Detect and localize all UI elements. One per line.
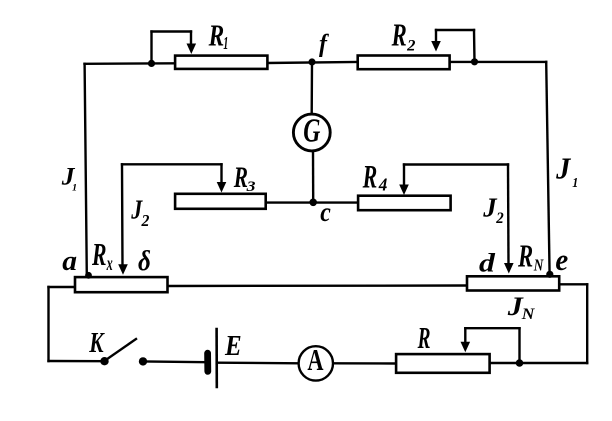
- svg-text:R: R: [91, 237, 106, 272]
- svg-text:1: 1: [223, 35, 228, 55]
- svg-text:G: G: [303, 112, 320, 149]
- svg-text:4: 4: [378, 174, 388, 194]
- svg-text:R: R: [417, 321, 431, 356]
- svg-text:2: 2: [141, 210, 150, 230]
- svg-text:R: R: [391, 17, 407, 53]
- svg-text:3: 3: [245, 179, 255, 195]
- svg-text:δ: δ: [138, 245, 151, 277]
- svg-text:J: J: [555, 153, 571, 186]
- svg-text:K: K: [88, 328, 105, 358]
- svg-text:d: d: [479, 249, 496, 278]
- svg-text:N: N: [521, 305, 536, 323]
- svg-text:1: 1: [572, 174, 578, 190]
- svg-text:E: E: [224, 330, 242, 362]
- svg-text:a: a: [62, 246, 77, 277]
- svg-text:R: R: [208, 19, 224, 53]
- svg-text:2: 2: [406, 36, 415, 55]
- svg-text:A: A: [307, 343, 323, 377]
- svg-text:x: x: [106, 252, 113, 275]
- svg-text:R: R: [517, 239, 533, 273]
- svg-text:1: 1: [72, 183, 77, 194]
- svg-text:e: e: [555, 243, 568, 277]
- svg-text:c: c: [320, 196, 331, 227]
- svg-text:N: N: [533, 257, 545, 275]
- svg-text:f: f: [319, 30, 330, 58]
- svg-text:2: 2: [495, 210, 504, 227]
- svg-text:R: R: [362, 159, 377, 196]
